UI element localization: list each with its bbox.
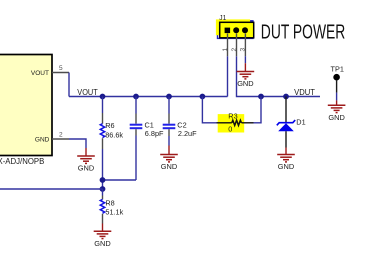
wire VOUT pin drop: [68, 73, 70, 97]
wire TP1 to ground: [336, 93, 338, 101]
svg-text:2: 2: [231, 48, 238, 52]
node junction VOUT/C1: [133, 94, 139, 100]
svg-text:J1: J1: [219, 13, 226, 22]
ground symbol at IC GND pin: [77, 148, 95, 163]
node junction VDUT/R3: [258, 94, 264, 100]
svg-text:2.2uF: 2.2uF: [178, 129, 197, 138]
svg-text:X-ADJ/NOPB: X-ADJ/NOPB: [0, 157, 44, 166]
node junction R8/left net: [100, 186, 106, 192]
svg-text:51.1k: 51.1k: [105, 207, 123, 216]
ground symbol under R8: [94, 224, 112, 239]
svg-text:VDUT: VDUT: [294, 87, 315, 97]
svg-text:1: 1: [222, 48, 229, 52]
svg-text:R6: R6: [105, 121, 114, 130]
test point TP1: [333, 74, 340, 93]
wire R3 right to VDUT: [254, 97, 262, 123]
svg-text:GND: GND: [78, 163, 94, 172]
zener diode D1: [277, 97, 295, 148]
ground symbol under D1: [277, 148, 295, 162]
svg-text:GND: GND: [278, 162, 294, 171]
svg-text:R8: R8: [105, 198, 114, 207]
svg-text:C1: C1: [145, 120, 154, 129]
svg-text:6.8pF: 6.8pF: [145, 129, 164, 138]
svg-text:D1: D1: [296, 118, 305, 127]
resistor R3: [217, 120, 254, 125]
capacitor C1: [130, 97, 143, 181]
resistor R3 highlight: [218, 114, 245, 132]
svg-text:2: 2: [59, 132, 63, 139]
J1 pin 3 stub: [244, 34, 246, 57]
resistor R6: [100, 97, 104, 150]
node junction VOUT/R3: [200, 94, 206, 100]
wire VOUT net horizontal: [69, 96, 228, 98]
wire J1 pin3 to ground: [244, 56, 246, 63]
node junction VOUT/C2: [166, 94, 172, 100]
node junction VOUT/R6: [100, 94, 106, 100]
svg-text:86.6k: 86.6k: [105, 131, 123, 140]
J1 pin 1 stub: [227, 34, 229, 57]
svg-text:C2: C2: [177, 120, 186, 129]
IC pin 5 (VOUT): [52, 65, 69, 73]
svg-text:GND: GND: [237, 79, 253, 88]
svg-text:VOUT: VOUT: [31, 70, 49, 77]
IC U1 regulator block: [0, 55, 52, 156]
J1 pin 2 stub: [236, 34, 238, 57]
resistor R8: [100, 189, 104, 224]
IC pin 2 (GND): [52, 132, 69, 139]
wire VDUT net horizontal: [237, 56, 321, 96]
svg-text:0: 0: [228, 124, 232, 133]
wire lower net to left edge: [0, 188, 103, 190]
svg-text:5: 5: [59, 65, 63, 72]
svg-text:VOUT: VOUT: [77, 87, 97, 97]
svg-text:GND: GND: [35, 136, 50, 143]
capacitor C2: [163, 97, 176, 146]
svg-text:GND: GND: [161, 162, 177, 171]
node junction R6/C1: [100, 177, 106, 183]
wire J1 pin1 riser: [227, 56, 229, 96]
ground symbol under C2: [160, 146, 178, 162]
svg-text:GND: GND: [94, 239, 110, 248]
wire IC GND pin to ground: [69, 139, 86, 148]
ground symbol under J1: [237, 63, 255, 79]
node junction VDUT/D1: [283, 94, 289, 100]
connector J1: [216, 19, 254, 38]
ground symbol under TP1: [328, 100, 346, 112]
svg-text:DUT POWER: DUT POWER: [261, 21, 346, 43]
wire C1 bottom across: [103, 179, 137, 181]
svg-text:TP1: TP1: [331, 64, 344, 73]
svg-text:R3: R3: [228, 112, 237, 121]
wire R6 bottom to lower node: [102, 149, 104, 189]
wire VOUT to R3 left: [202, 97, 216, 123]
svg-text:GND: GND: [328, 113, 344, 122]
svg-text:3: 3: [240, 48, 247, 52]
